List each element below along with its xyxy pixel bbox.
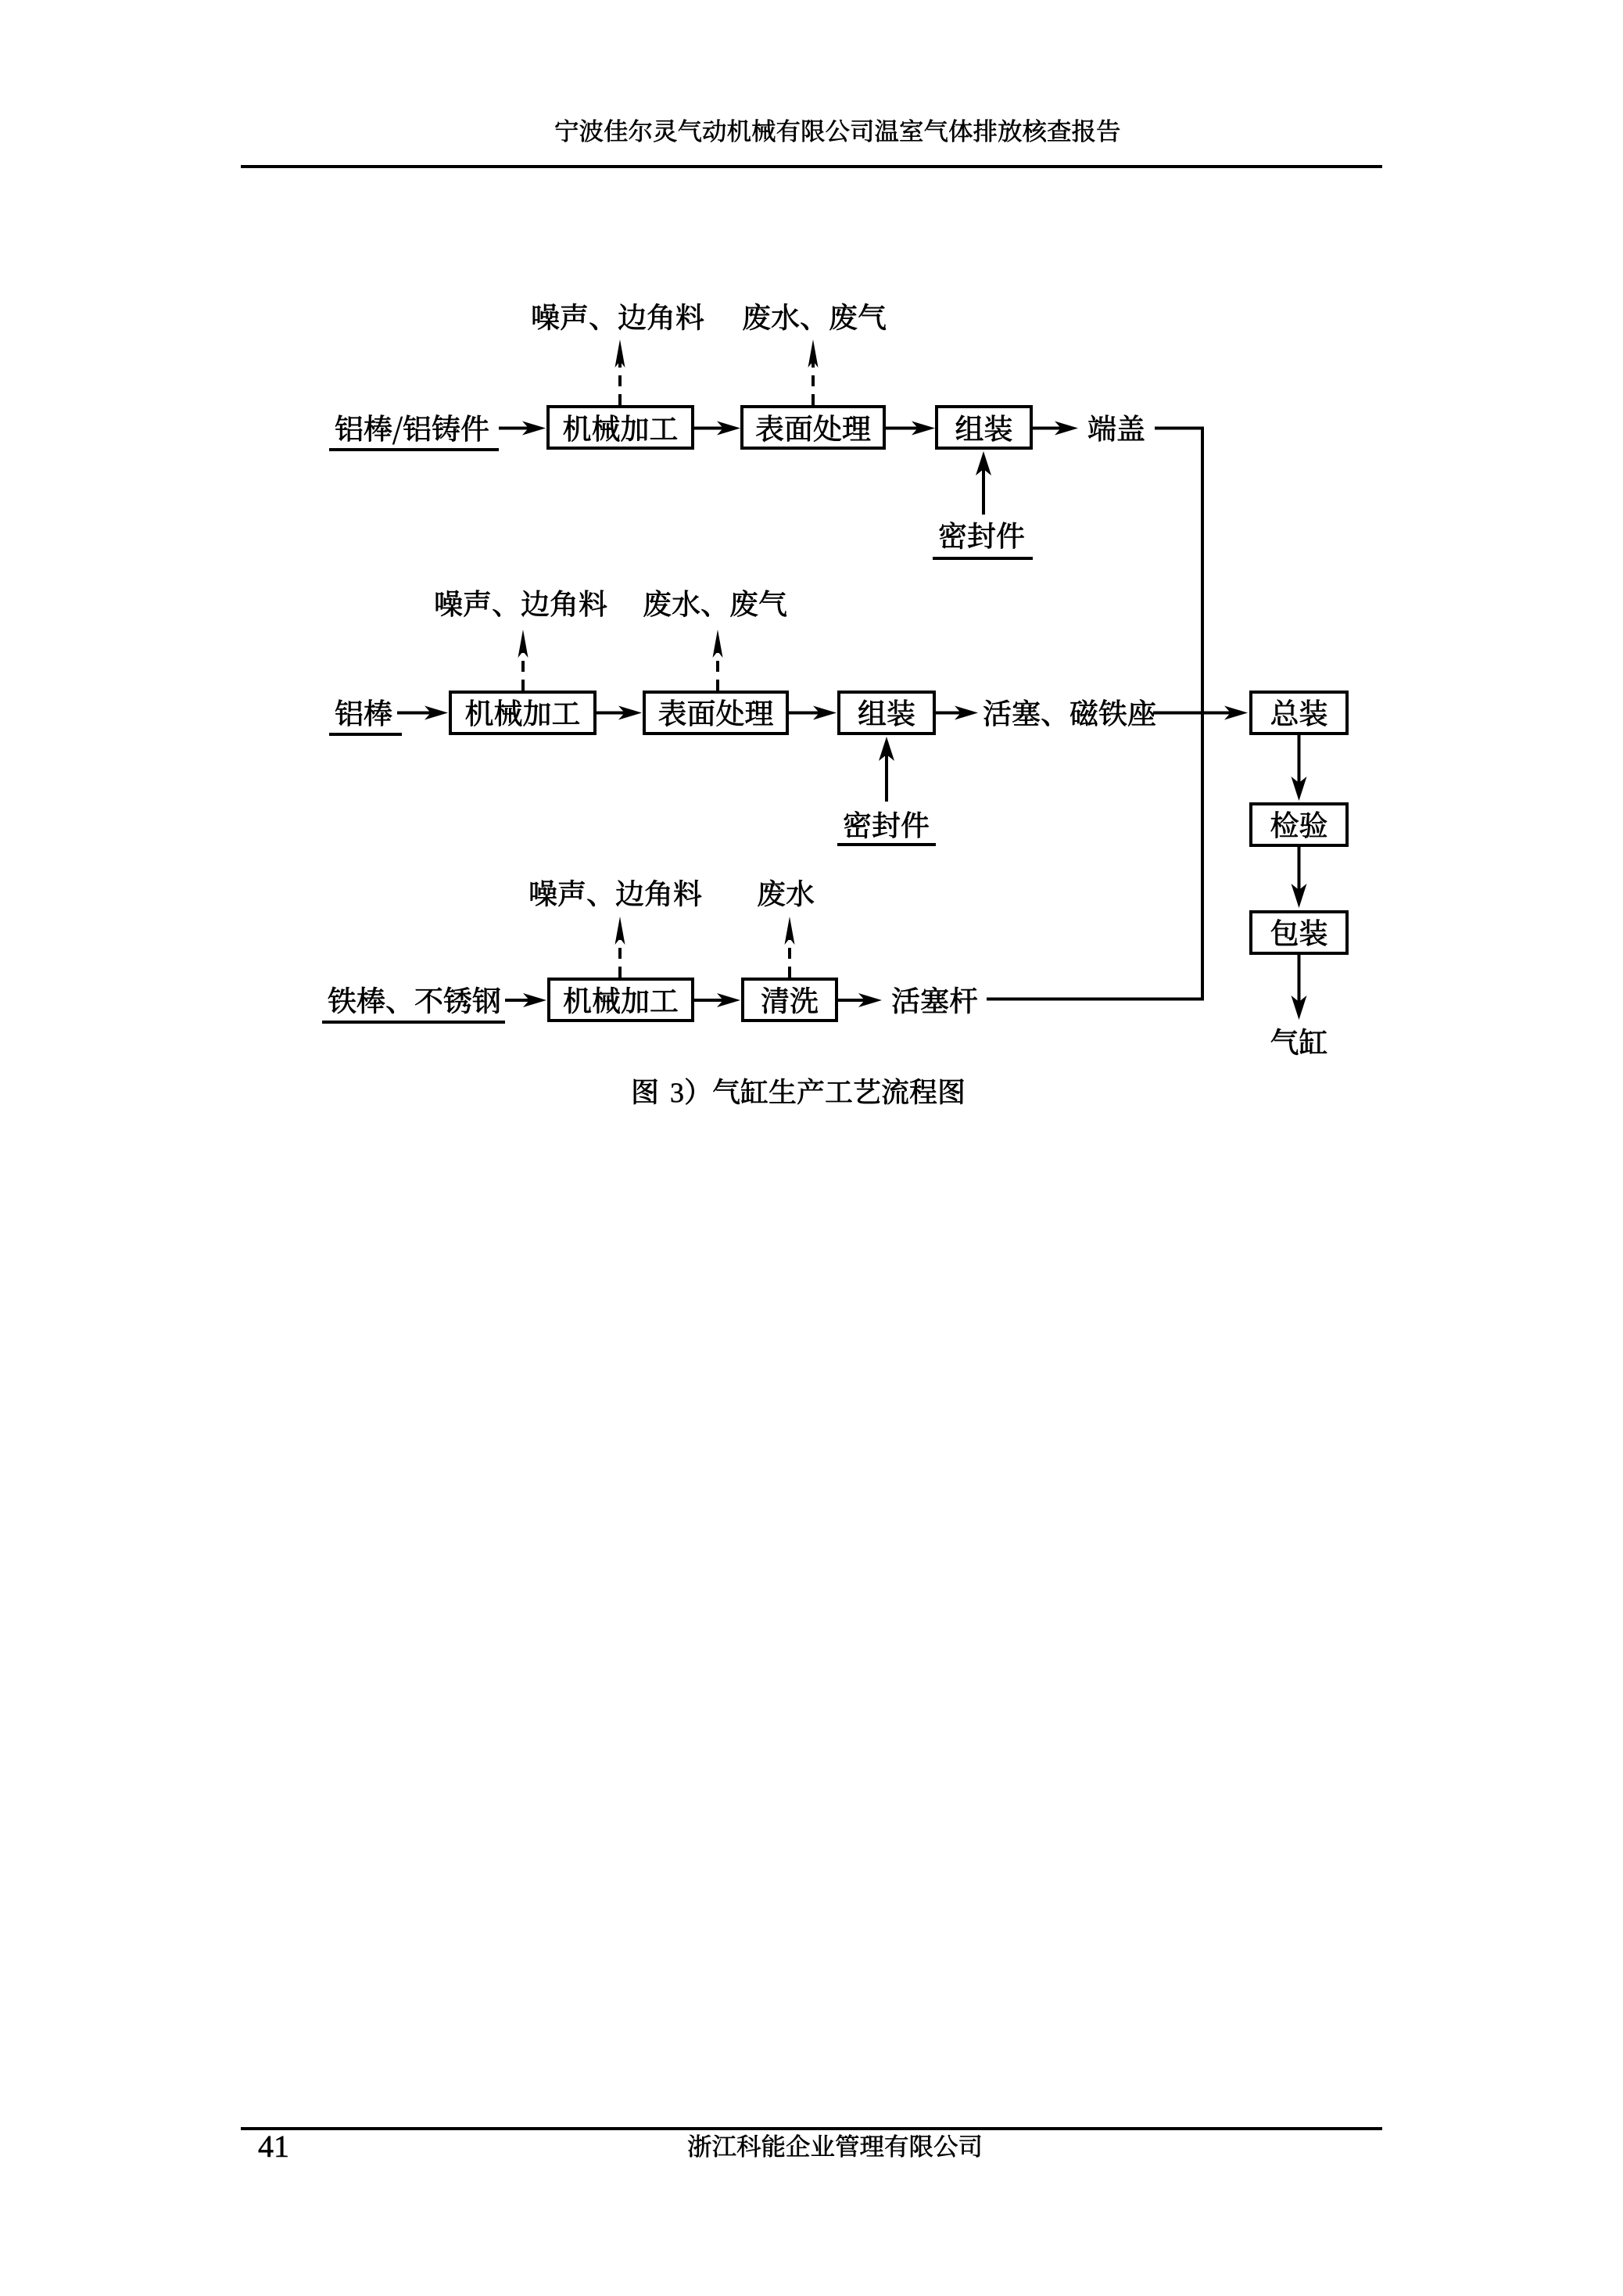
box 机械加工 row2 [450,692,595,734]
box 机械加工 row3 [549,979,693,1021]
text 包装 [1271,919,1327,945]
text 机械加工 row1 [564,414,677,441]
dashed arrow 机械加工 row2 to 噪声、边角料 [521,650,525,691]
box 检验 [1251,804,1347,845]
footer 浙江科能企业管理有限公司 [688,2134,980,2157]
arrow 总装 to 检验 [1298,735,1301,784]
underline 铁棒、不锈钢 [322,1021,505,1024]
arrow 机械加工 to 表面处理 row2 [597,712,626,715]
dashed arrow 表面处理 row1 to 废水、废气 [811,360,815,405]
label 端盖 [1088,415,1144,442]
underline 铝棒 row2 [329,733,402,736]
arrow 机械加工 to 表面处理 row1 [694,427,725,430]
box 表面处理 row1 [742,407,884,448]
dashed arrow 清洗 to 废水 [788,937,791,978]
arrow 机械加工 to 清洗 [694,999,725,1002]
label 废水、废气 row1 [743,303,886,330]
arrow 表面处理 to 组装 row2 [789,712,821,715]
box 表面处理 row2 [644,692,787,734]
arrow 表面处理 to 组装 row1 [886,427,919,430]
text 清洗 [761,987,818,1013]
text 机械加工 row2 [466,699,579,726]
label 废水、废气 row2 [644,590,786,616]
label 铁棒、不锈钢 [328,987,500,1013]
box 机械加工 row1 [548,407,693,448]
label 活塞杆 [892,987,977,1013]
arrow 清洗 to 活塞杆 [838,999,866,1002]
caption 图 3）气缸生产工艺流程图 [634,1078,964,1105]
footer rule line [241,2127,1382,2130]
arrow 铝棒 to 机械加工 row2 [397,712,432,715]
text 表面处理 row2 [659,699,773,726]
box 组装 row1 [937,407,1031,448]
label 活塞、磁铁座 [983,699,1155,726]
text 机械加工 row3 [564,987,677,1013]
arrow 包装 to 气缸 [1298,955,1301,1003]
header title 宁波佳尔灵气动机械有限公司温室气体排放核查报告 [556,119,1120,142]
arrow 组装 to 端盖 [1033,427,1062,430]
arrow 铝棒/铝铸件 to 机械加工 [499,427,530,430]
underline 密封件 row2 [837,843,936,846]
box 总装 [1251,692,1347,734]
dashed arrow 机械加工 row1 to 噪声、边角料 [618,360,622,405]
arrow 密封件 to 组装 row1 [982,468,985,515]
text 表面处理 row1 [756,414,870,441]
label 噪声、边角料 row1 [533,303,704,330]
text 总装 [1271,699,1327,726]
label 气缸 [1271,1028,1327,1055]
label 铝棒/铝铸件 [335,414,489,444]
text 组装 row2 [858,700,914,726]
label 铝棒 row2 [335,699,392,726]
text 检验 [1271,811,1327,838]
header rule line [241,165,1382,168]
label 密封件 row1 [940,522,1024,549]
page number 41 [259,2136,288,2157]
underline 铝棒/铝铸件 [329,448,499,451]
arrow 组装 to 活塞、磁铁座 [936,712,962,715]
box 组装 row2 [839,692,934,734]
underline 密封件 row1 [933,557,1033,560]
label 噪声、边角料 row2 [436,590,607,617]
label 噪声、边角料 row3 [531,880,701,906]
connector 端盖 to 总装/活塞杆 elbow [987,429,1202,999]
dashed arrow 表面处理 row2 to 废水、废气 [716,650,719,691]
box 清洗 [743,979,837,1021]
dashed arrow 机械加工 row3 to 噪声、边角料 [618,937,622,978]
arrow 活塞、磁铁座 to 总装 [1153,712,1232,715]
label 密封件 row2 [844,811,929,838]
text 组装 row1 [956,415,1012,442]
label 废水 row3 [758,880,814,906]
arrow 铁棒、不锈钢 to 机械加工 row3 [505,999,531,1002]
box 包装 [1251,912,1347,953]
arrow 检验 to 包装 [1298,847,1301,891]
arrow 密封件 to 组装 row2 [885,753,888,802]
